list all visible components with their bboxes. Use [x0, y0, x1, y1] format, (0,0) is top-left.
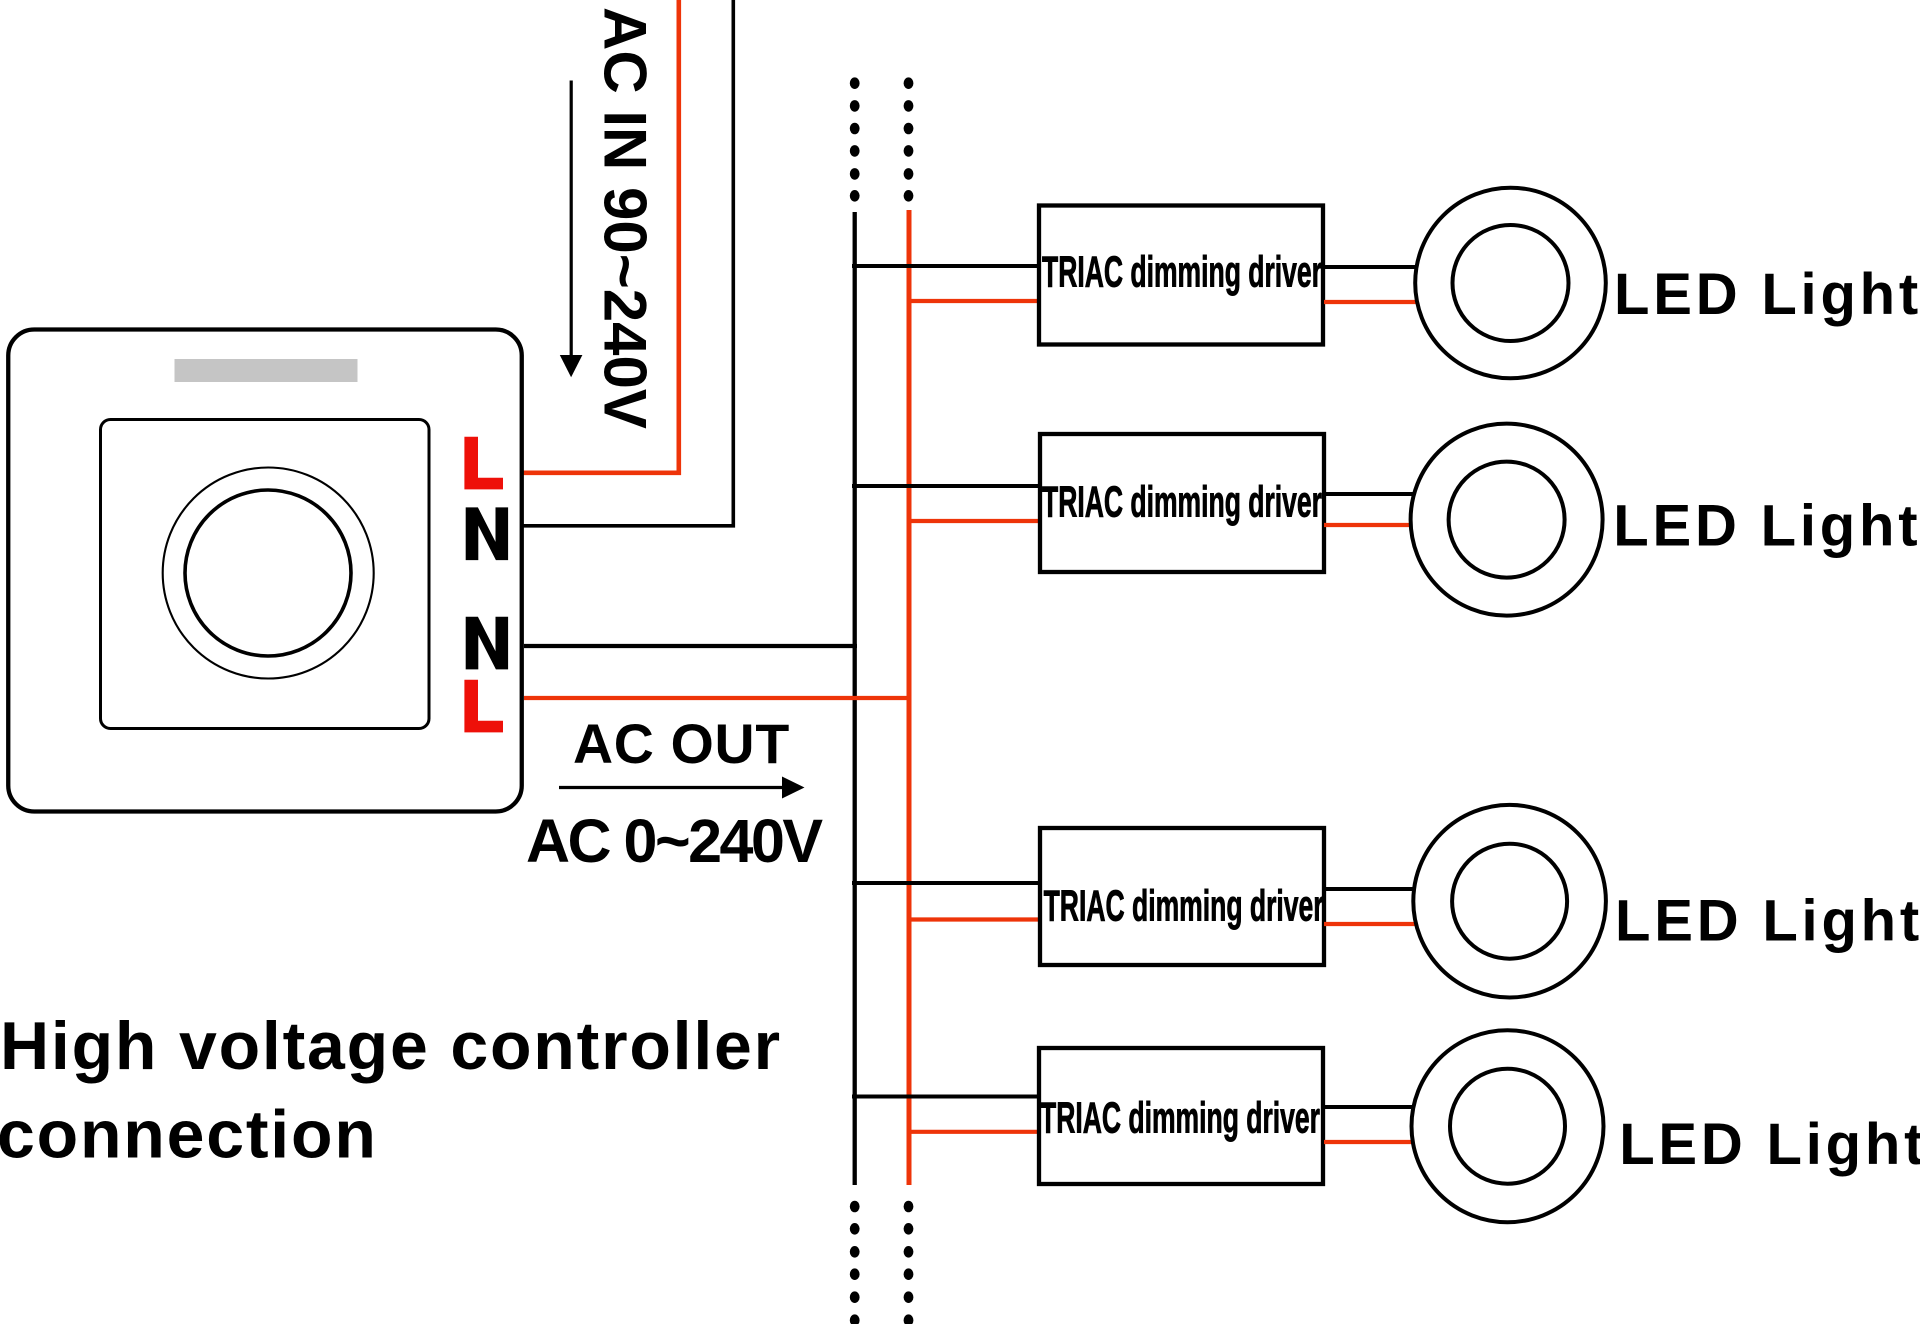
svg-text:High voltage controller: High voltage controller [0, 1008, 782, 1084]
wire: driver 3 live out (red) [1324, 922, 1416, 926]
label: High voltage controller connection [0, 1008, 782, 1173]
wire: driver 3 neutral in (black) [852, 881, 1038, 885]
wire: driver 4 neutral out (black) [1324, 1105, 1414, 1109]
LED light 3 (outer ring) [1413, 805, 1606, 998]
wire: driver 3 live in (red) [907, 917, 1038, 921]
LED light 1 (inner circle) [1453, 225, 1569, 341]
svg-text:connection: connection [0, 1097, 378, 1173]
wire: AC-in live (red, from top into terminal L) [522, 0, 679, 473]
wire: driver 2 live in (red) [907, 519, 1038, 523]
wire: L out to live bus (red) [524, 696, 911, 700]
LED light 4 (outer ring) [1412, 1030, 1604, 1222]
svg-text:LED Light: LED Light [1614, 262, 1920, 327]
LED light 3 (inner circle) [1452, 844, 1567, 959]
knob plate (inner square) [101, 420, 430, 729]
wire: AC-in neutral (black, from top into terminal N) [522, 0, 733, 526]
TRIAC dimming driver 3 (box) [1040, 828, 1324, 965]
arrow: AC-out direction (right) [559, 777, 805, 799]
LED light 4 (inner circle) [1450, 1069, 1565, 1184]
wire: driver 3 neutral out (black) [1324, 887, 1414, 891]
terminal L (AC out, red) [464, 680, 503, 733]
svg-text:LED Light: LED Light [1613, 493, 1920, 558]
terminal N (AC in, black) [466, 507, 508, 560]
wire: driver 4 live out (red) [1324, 1140, 1413, 1144]
wire: N out to neutral bus (black) [524, 644, 857, 648]
svg-text:TRIAC dimming driver: TRIAC dimming driver [1042, 477, 1322, 527]
wire: driver 4 live in (red) [907, 1130, 1038, 1134]
wire: driver 1 neutral in (black) [852, 264, 1038, 268]
wire: driver 1 live out (red) [1324, 300, 1417, 304]
wire: driver 2 neutral out (black) [1324, 492, 1414, 496]
terminal L (AC in, red) [464, 437, 503, 490]
svg-text:TRIAC dimming driver: TRIAC dimming driver [1040, 1093, 1320, 1143]
indicator window (gray bar) [175, 359, 358, 382]
terminal N (AC out, black) [466, 617, 508, 670]
wire: driver 1 neutral out (black) [1324, 265, 1417, 269]
wire: driver 2 neutral in (black) [852, 484, 1038, 488]
dotted continuation: neutral bus bottom [850, 1201, 860, 1324]
svg-text:LED Light: LED Light [1619, 1112, 1920, 1177]
TRIAC dimming driver 1 (box) [1039, 206, 1323, 345]
TRIAC dimming driver 4 (box) [1039, 1048, 1323, 1184]
wire: driver 1 live in (red) [907, 299, 1038, 303]
knob outer circle [163, 468, 374, 679]
svg-text:AC 0~240V: AC 0~240V [526, 807, 823, 875]
LED light 2 (outer ring) [1411, 424, 1603, 616]
dotted continuation: neutral bus top [850, 77, 860, 201]
wire: driver 4 neutral in (black) [852, 1095, 1038, 1099]
dimmer controller (outer box) [8, 330, 522, 812]
LED light 1 (outer ring) [1415, 188, 1606, 379]
bus: neutral (black vertical) [853, 212, 857, 1185]
svg-text:AC IN 90~240V: AC IN 90~240V [592, 7, 659, 429]
LED light 2 (inner circle) [1449, 462, 1565, 578]
wire: driver 2 live out (red) [1324, 523, 1411, 527]
svg-text:AC OUT: AC OUT [573, 713, 790, 775]
knob [185, 490, 351, 656]
svg-text:LED Light: LED Light [1615, 888, 1920, 953]
dotted continuation: live bus bottom [904, 1201, 914, 1324]
bus: live (red vertical) [907, 210, 912, 1185]
TRIAC dimming driver 2 (box) [1040, 434, 1324, 572]
svg-text:TRIAC dimming driver: TRIAC dimming driver [1042, 247, 1322, 297]
dotted continuation: live bus top [904, 77, 914, 201]
svg-text:TRIAC dimming driver: TRIAC dimming driver [1044, 881, 1324, 931]
arrow: AC-in direction (down) [560, 81, 583, 378]
